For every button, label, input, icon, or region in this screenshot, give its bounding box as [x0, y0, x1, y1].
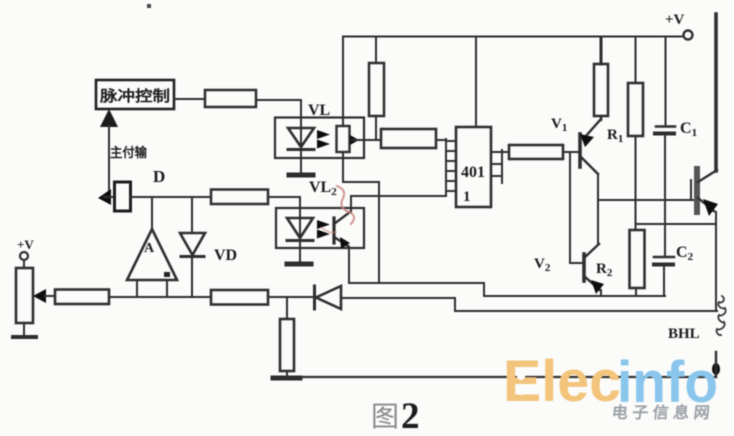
capacitor C1 — [656, 125, 675, 128]
diode D2 — [316, 286, 341, 309]
optocoupler VL1 box — [275, 118, 364, 159]
BHL squiggle lead — [717, 296, 726, 335]
resistor bottom-left — [55, 290, 109, 305]
pulse-control box 脉冲控制 — [96, 80, 174, 109]
+V terminal circle — [684, 31, 693, 40]
wire resistor to VL2 LED — [268, 197, 300, 217]
op-amp A — [127, 229, 177, 280]
bottom long rail — [299, 376, 716, 378]
svg-text:A: A — [144, 241, 155, 256]
resistor R2 — [630, 230, 645, 288]
potentiometer RP — [16, 268, 33, 323]
VL1 light arrows — [317, 130, 330, 139]
resistor mid-low — [280, 319, 294, 371]
terminal circle left — [20, 252, 28, 260]
VL2 phototransistor — [332, 218, 335, 243]
wire VL1 emitter across — [343, 181, 379, 183]
wire IC out to resistor — [502, 151, 509, 153]
base node down-wire to V2 — [569, 152, 571, 263]
output transistor emitter — [698, 198, 714, 211]
diode D2 cathode bar — [313, 286, 316, 309]
V2 emitter rail — [349, 283, 665, 296]
wire diode to step — [341, 298, 717, 311]
amplifier input wire — [151, 197, 153, 230]
component D — [115, 182, 131, 211]
base drive wire V1 collector to output transistor — [598, 199, 695, 201]
VL1 LED cathode stem — [300, 150, 302, 174]
capacitor C2 — [654, 256, 674, 259]
top rail +V — [343, 36, 683, 38]
speck top-left — [147, 4, 151, 8]
wire wiper to resistor — [45, 295, 55, 297]
svg-text:+V: +V — [17, 237, 34, 252]
V1 collector — [580, 156, 598, 174]
wire resistor to V1 — [563, 151, 580, 153]
svg-text:VD: VD — [214, 247, 237, 264]
4011 left pin bus — [445, 139, 447, 196]
VL1 photo element — [337, 126, 350, 152]
ground VL2 — [287, 262, 311, 267]
emitter drop — [715, 212, 717, 310]
wire to pot — [23, 260, 25, 268]
svg-text:脉冲控制: 脉冲控制 — [99, 87, 170, 105]
IC 4011 — [456, 127, 491, 207]
output transistor collector — [698, 170, 717, 182]
collector thick bar — [714, 14, 718, 171]
svg-text:2: 2 — [401, 396, 420, 436]
wire D to resistor — [131, 196, 211, 198]
output transistor base bar — [694, 169, 700, 212]
VL1 photo emitter stem — [342, 152, 344, 182]
V2 emitter — [584, 276, 600, 290]
pot wiper arrow — [33, 289, 46, 303]
VL2 LED — [299, 208, 301, 240]
svg-text:Elec: Elec — [503, 349, 621, 414]
amp output legs — [136, 280, 138, 297]
VL2 collector wire to IC — [351, 196, 446, 212]
wire rail drop to VL1 photo — [342, 37, 344, 126]
diode VD — [180, 233, 205, 255]
watermark Elecinfo — [503, 349, 718, 422]
svg-text:1: 1 — [463, 189, 471, 205]
stem to ground — [286, 371, 288, 377]
wire Rb down to R2 — [635, 136, 637, 230]
resistor vertical mid — [369, 63, 384, 116]
V2 emitter stem — [600, 290, 602, 296]
wire to D — [104, 196, 115, 198]
terminal blob — [712, 363, 720, 375]
svg-text:主付输: 主付输 — [110, 145, 148, 160]
wire rail to R1a — [600, 37, 603, 64]
wire resistor to VL1 LED — [256, 100, 301, 118]
wire arrow stem — [108, 126, 110, 194]
wire down to V2 emitter rail — [378, 182, 380, 283]
svg-text:电子信息网: 电子信息网 — [611, 403, 715, 422]
VL2 emitter drop — [348, 247, 350, 283]
resistor bottom mid — [211, 290, 268, 305]
pot bottom wire — [23, 323, 25, 336]
transistor V1 base bar — [578, 134, 582, 167]
output transistor base stub — [690, 180, 692, 198]
ground VL1 — [289, 173, 313, 178]
resistor to 4011 input — [381, 129, 436, 148]
wire VL1 out to node — [352, 139, 381, 141]
IC power pin from rail — [475, 37, 477, 127]
optocoupler VL2 box — [276, 208, 364, 248]
VL2 light arrows — [317, 220, 330, 229]
resistor hanging mid-low stem — [286, 297, 288, 319]
V2 base wire — [570, 262, 584, 264]
svg-text:图: 图 — [371, 402, 399, 433]
V1 emitter from R1a — [585, 119, 601, 137]
wire rail to resistor top mid — [375, 37, 377, 63]
resistor top-left row — [205, 90, 256, 107]
V1 collector drop — [597, 174, 599, 243]
wire rail to C1 — [665, 37, 667, 125]
svg-text:401: 401 — [461, 164, 485, 181]
ground pot — [13, 335, 36, 339]
resistor Rb — [628, 83, 643, 136]
R1a bottom stub — [600, 116, 602, 120]
wire resistor to comb — [436, 139, 446, 141]
bottom wire row — [109, 296, 211, 298]
VL2 LED cathode stem — [299, 241, 301, 262]
resistor IC to V1 base — [509, 145, 563, 159]
R2 bottom stub — [635, 288, 637, 296]
pins left — [446, 140, 456, 142]
wire C2 bottom — [663, 266, 665, 296]
VL1 emitter arrow — [350, 135, 359, 145]
4011 right pin bus — [501, 150, 503, 183]
resistor mid row — [211, 190, 268, 205]
svg-text:BHL: BHL — [668, 326, 700, 342]
resistor R1a — [594, 64, 608, 116]
diode VD anode wire — [191, 197, 193, 233]
red scribble annotation — [337, 186, 354, 224]
emitter return wire — [636, 223, 716, 225]
wire rail to resistor Rb — [635, 37, 637, 83]
svg-text:D: D — [153, 167, 165, 186]
transistor V2 base bar — [582, 254, 586, 281]
pins right — [491, 151, 502, 153]
bottom rail overlay — [299, 376, 716, 378]
svg-text:+V: +V — [665, 12, 685, 28]
wire resistor bottom to node — [375, 116, 377, 140]
wire C1 to C2 — [664, 136, 666, 257]
arrow into pulse box — [100, 109, 118, 127]
ground bar bottom — [273, 376, 300, 381]
wire pulse box to resistor — [174, 98, 205, 100]
node junction blob — [98, 189, 111, 205]
wire to diode — [268, 296, 315, 298]
V2 collector — [584, 244, 599, 258]
VL1 LED — [300, 118, 302, 149]
